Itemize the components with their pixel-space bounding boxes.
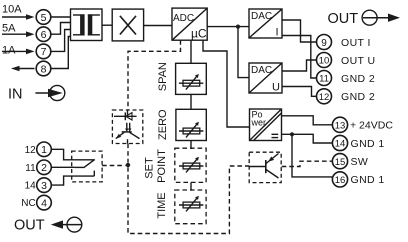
IN symbol — [35, 85, 64, 100]
wire multiplier to ADC — [144, 25, 172, 27]
optocoupler — [112, 110, 142, 144]
terminal 3 — [37, 178, 52, 193]
svg-text:11: 11 — [319, 74, 329, 85]
wire power supply to terminal 13 — [282, 116, 333, 125]
svg-text:U: U — [272, 82, 280, 94]
junction node dashed net — [126, 163, 130, 167]
terminal 4 — [37, 195, 52, 210]
terminal 7 — [36, 44, 51, 59]
svg-text:1A: 1A — [2, 44, 16, 56]
DAC U block — [249, 63, 282, 94]
svg-text:wer: wer — [251, 118, 267, 128]
svg-text:9: 9 — [321, 38, 327, 49]
svg-text:+ 24VDC: + 24VDC — [350, 120, 393, 132]
switch transistor Q1 — [249, 152, 281, 182]
wire DAC I to terminal 11 — [282, 36, 317, 79]
wire DAC U to terminal 10 — [282, 60, 317, 71]
terminal 14 — [332, 135, 347, 150]
svg-text:DAC: DAC — [251, 65, 272, 76]
svg-text:SPAN: SPAN — [157, 62, 169, 91]
dashed wire relay to junction — [102, 165, 125, 167]
svg-text:DAC: DAC — [251, 11, 272, 22]
svg-text:OUT: OUT — [14, 218, 45, 234]
terminal 11 — [317, 71, 332, 86]
multiplier block — [112, 9, 143, 41]
wire terminal 8 to transformer — [51, 37, 71, 69]
wire SET POINT to TIME — [190, 182, 192, 190]
dashed wire switch transistor to terminal 15 SW — [282, 161, 333, 166]
svg-text:GND 2: GND 2 — [341, 73, 375, 85]
svg-text:GND 1: GND 1 — [351, 138, 385, 150]
svg-text:GND 2: GND 2 — [341, 91, 375, 103]
relay K1 — [72, 151, 102, 182]
wire ZERO to SET POINT — [190, 141, 192, 149]
svg-text:8: 8 — [41, 63, 47, 75]
terminal 16 — [332, 172, 347, 187]
wire junction to DAC U — [238, 27, 249, 78]
junction node ADC output — [236, 25, 240, 29]
svg-text:15: 15 — [335, 157, 346, 168]
arrow input 1A — [2, 49, 35, 55]
arrow output terminal 8 — [11, 66, 35, 72]
dashed wire optocoupler to junction — [127, 144, 129, 163]
SPAN potentiometer block — [176, 63, 207, 94]
wire DAC I to terminal 9 — [282, 20, 317, 42]
svg-text:IN: IN — [8, 87, 23, 103]
svg-text:14: 14 — [335, 139, 346, 150]
power supply block — [250, 109, 282, 141]
terminal 9 — [317, 35, 332, 50]
wire terminal 2 to relay — [51, 166, 75, 168]
svg-text:SET: SET — [144, 157, 156, 179]
SET POINT potentiometer block — [175, 148, 206, 182]
wire microcontroller to power supply — [203, 40, 250, 127]
wire terminal 5 to transformer — [51, 16, 71, 18]
wire junction to terminal 16 — [292, 134, 333, 177]
wire terminal 3 to relay — [51, 176, 75, 185]
DAC I block — [249, 9, 282, 39]
OUT symbol top — [362, 10, 400, 25]
terminal 1 — [37, 142, 52, 157]
svg-text:10A: 10A — [2, 4, 22, 16]
terminal 2 — [37, 160, 52, 175]
svg-text:16: 16 — [335, 175, 346, 186]
transformer T1 — [71, 9, 103, 41]
terminal 12 — [317, 89, 332, 104]
svg-text:7: 7 — [41, 46, 47, 58]
wire DAC U to terminal 12 — [282, 87, 316, 97]
wire SPAN to ZERO — [190, 94, 192, 109]
svg-text:12: 12 — [319, 92, 330, 103]
svg-text:ADC: ADC — [173, 13, 194, 24]
junction node power ground — [290, 132, 294, 136]
svg-text:POINT: POINT — [156, 149, 168, 183]
svg-text:3: 3 — [41, 180, 47, 192]
wire microcontroller to SPAN — [190, 40, 192, 63]
dashed wire junction to switch transistor — [128, 166, 249, 234]
svg-text:5: 5 — [41, 12, 47, 24]
svg-text:NC: NC — [21, 198, 35, 209]
svg-text:TIME: TIME — [156, 192, 168, 218]
svg-text:OUT I: OUT I — [341, 37, 371, 49]
wire power supply to terminal 14 — [282, 134, 333, 143]
svg-text:OUT U: OUT U — [341, 55, 375, 67]
wire transformer to multiplier — [102, 24, 112, 26]
svg-text:SW: SW — [351, 156, 369, 168]
wire terminal 6 to transformer — [51, 23, 71, 35]
svg-text:GND 1: GND 1 — [351, 174, 385, 186]
svg-text:5A: 5A — [2, 23, 16, 35]
svg-text:11: 11 — [25, 163, 36, 174]
svg-text:6: 6 — [41, 29, 47, 41]
svg-text:OUT: OUT — [328, 11, 359, 27]
OUT symbol bottom — [51, 217, 82, 232]
svg-text:4: 4 — [41, 197, 47, 209]
svg-text:10: 10 — [319, 56, 330, 67]
terminal 15 — [332, 154, 347, 169]
wire ADC to DAC I — [207, 26, 249, 28]
svg-text:14: 14 — [25, 181, 37, 192]
terminal 8 — [36, 61, 51, 76]
terminal 5 — [36, 10, 51, 25]
terminal 10 — [317, 53, 332, 68]
svg-text:2: 2 — [41, 162, 47, 174]
terminal 13 — [332, 117, 347, 132]
ZERO potentiometer block — [176, 109, 206, 140]
arrow input 10A — [2, 14, 35, 20]
arrow input 5A — [2, 31, 35, 37]
svg-text:µC: µC — [191, 27, 207, 41]
svg-text:1: 1 — [41, 144, 47, 156]
ADC / microcontroller block U1 — [172, 8, 207, 40]
svg-text:13: 13 — [335, 120, 346, 131]
wire terminal 7 to transformer — [51, 30, 71, 52]
terminal 6 — [36, 27, 51, 42]
svg-text:I: I — [276, 27, 279, 39]
TIME potentiometer block — [175, 190, 206, 224]
svg-text:12: 12 — [25, 145, 37, 156]
svg-text:ZERO: ZERO — [157, 109, 169, 140]
dashed wire ADC to optocoupler — [128, 40, 181, 110]
wire terminal 1 to relay — [51, 149, 75, 160]
